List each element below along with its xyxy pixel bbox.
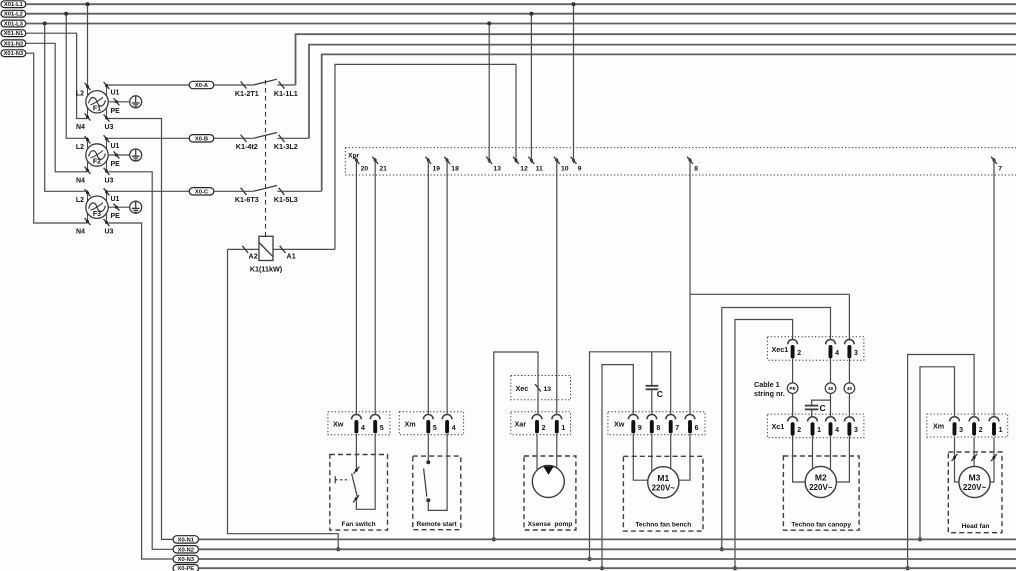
wire F U1 to X0-A [107, 84, 190, 86]
wire Xpr 18 to Xm 4 [446, 158, 448, 415]
wire bus L3 [26, 23, 1016, 25]
svg-text:A2: A2 [249, 252, 258, 261]
terminal label X0-N1 [173, 536, 198, 543]
svg-text:L2: L2 [76, 91, 84, 98]
capacitor C canopy [805, 406, 818, 410]
wire Xec1-2 down [792, 358, 794, 383]
svg-text:F2: F2 [93, 159, 101, 166]
svg-text:X0-B: X0-B [195, 136, 208, 142]
terminal slash F3 PE [114, 204, 120, 211]
contact blade K1-4t2/K1-3L2 [253, 133, 277, 139]
node junction bench-PE [600, 566, 604, 570]
terminal slash Xpr pin 7 [991, 157, 997, 164]
wire to Xc1-3 [848, 394, 850, 417]
svg-text:4: 4 [835, 427, 839, 434]
svg-text:220V~: 220V~ [963, 483, 987, 492]
svg-text:Head fan: Head fan [962, 523, 990, 530]
wire contact K1-5L3 out [277, 190, 321, 192]
filter F3 [86, 190, 108, 223]
terminal slash F1 L2 [85, 83, 91, 90]
connector Xw bench box [608, 412, 705, 435]
svg-text:K1-2T1: K1-2T1 [235, 89, 259, 98]
svg-text:F3: F3 [93, 211, 101, 218]
wire Xw6 to M1 [679, 434, 690, 480]
svg-text:A1: A1 [287, 252, 296, 261]
svg-text:U1: U1 [111, 143, 120, 150]
wire PE to Xm-head 2 [908, 355, 975, 569]
terminal Xec1 pin 2 [788, 340, 798, 345]
svg-text:M1: M1 [657, 473, 669, 483]
wire F1.U3 to X0-N1 [107, 119, 173, 540]
svg-text:2: 2 [542, 425, 546, 432]
terminal Xw pin 4 [352, 415, 362, 420]
terminal slash Xpr pin 21 [372, 157, 378, 164]
mechanical link K1 dashed [265, 80, 267, 236]
actuator bar fan switch [334, 476, 336, 483]
svg-text:13: 13 [544, 386, 552, 393]
terminal Xc1 pin 1 [808, 417, 818, 422]
contact bottom fan switch [353, 495, 359, 502]
svg-text:F1: F1 [93, 106, 101, 113]
wire Xar1 to pump [556, 434, 558, 468]
node L3 to Xpr 13 [487, 22, 491, 26]
wire bus N1 bottom [199, 538, 1016, 540]
svg-text:Techno fan canopy: Techno fan canopy [791, 522, 851, 529]
wire Xpr 20 to Xw 4 [355, 158, 357, 415]
connector Xc1 box [767, 414, 864, 438]
wire N3 to F3.N4 [26, 53, 88, 223]
wire N1 bus to Xec 13 to Xar 2 [494, 352, 538, 539]
svg-text:X0-A: X0-A [195, 83, 209, 89]
equipment box Fan switch [330, 455, 388, 531]
terminal Xw pin 8 [647, 415, 657, 420]
svg-text:11: 11 [536, 165, 543, 172]
terminal slash K1-4t2 [241, 135, 247, 142]
wire L3 to F3.L2 [45, 24, 88, 192]
terminal Xc1 pin 2 [788, 417, 798, 422]
svg-text:8: 8 [694, 165, 698, 172]
svg-text:U3: U3 [105, 177, 114, 184]
svg-text:5: 5 [433, 425, 437, 432]
svg-text:X01-L2: X01-L2 [4, 12, 23, 18]
wire F2.U3 to X0-N2 [107, 172, 173, 550]
terminal slash F1 U3 [104, 114, 110, 121]
terminal label X0-A [189, 81, 214, 88]
terminal label X01-N3 [1, 50, 26, 57]
terminal Xm pin 1 [989, 417, 999, 422]
contact blade K1-2T1/K1-1L1 [253, 79, 277, 85]
switch blade remote start [424, 469, 427, 497]
svg-text:Cable 1: Cable 1 [754, 380, 780, 389]
terminal Xm pin 3 [950, 417, 960, 422]
wire Xc1-2 to M2 [793, 435, 806, 482]
svg-text:Xec: Xec [516, 384, 529, 393]
svg-text:X0-N3: X0-N3 [178, 557, 195, 563]
svg-text:M3: M3 [969, 473, 981, 483]
terminal label X0-C [189, 188, 214, 195]
wire to M3 right [990, 460, 994, 482]
svg-text:X01-N1: X01-N1 [4, 31, 24, 37]
svg-text:C: C [820, 403, 826, 413]
actuator dashed fan switch [335, 479, 349, 481]
svg-text:19: 19 [433, 165, 441, 172]
svg-text:M2: M2 [815, 473, 827, 483]
svg-text:Techno fan bench: Techno fan bench [635, 522, 691, 529]
node L3 junction to F3 [43, 22, 47, 26]
filter F2 [86, 137, 108, 172]
terminal Xm pin 4 [442, 415, 452, 420]
svg-text:4: 4 [452, 425, 456, 432]
terminal slash Xpr pin 9 [571, 157, 577, 164]
terminal label X0-N2 [173, 546, 198, 553]
wire Xpr 21 to Xw 5 [374, 158, 376, 415]
wire capacitor to Xc1 1 [811, 410, 813, 417]
svg-text:C: C [657, 389, 663, 399]
terminal slash Xpr pin 10 [554, 157, 560, 164]
terminal slash A1 [280, 246, 286, 253]
node L1 junction to F1 [86, 2, 90, 6]
terminal slash Xpr pin 19 [425, 157, 431, 164]
svg-text:Remote start: Remote start [416, 521, 457, 528]
svg-text:10: 10 [561, 165, 569, 172]
motor M1 [648, 467, 679, 498]
svg-text:2: 2 [797, 427, 801, 434]
svg-text:Xm: Xm [405, 419, 416, 428]
wire N1 to F1.N4 [26, 33, 88, 118]
terminal slash F3 L2 [85, 189, 91, 196]
svg-text:N4: N4 [76, 177, 85, 184]
wire PE to Xw9 loop [602, 365, 633, 569]
ground symbol at F1 [130, 96, 142, 108]
wire phase A riser and bus [296, 34, 1016, 85]
terminal Xar pin 2 [532, 415, 542, 420]
svg-text:X01-N2: X01-N2 [4, 41, 24, 47]
wire Xw7 to M1 [670, 434, 672, 469]
wire pin8 tee to Xec1 3 [690, 293, 849, 295]
terminal Xw pin 6 [685, 415, 695, 420]
wire Xec1-4 down [830, 358, 832, 383]
svg-text:6: 6 [695, 425, 699, 432]
svg-text:U1: U1 [111, 196, 120, 203]
terminal Xw pin 9 [628, 415, 638, 420]
svg-text:3: 3 [854, 427, 858, 434]
terminal slash Xpr pin 8 [687, 157, 693, 164]
wire marker PE [787, 383, 798, 394]
terminal slash Xpr pin 11 [529, 157, 535, 164]
terminal slash Xec pin 13 [535, 384, 541, 391]
terminal Xc1 pin 3 [845, 417, 855, 422]
motor M3 [959, 466, 990, 497]
wire Xm3 into head fan [954, 437, 956, 460]
svg-text:1: 1 [817, 427, 821, 434]
terminal slash K1-3L2 [279, 135, 285, 142]
wire to M3 left [955, 460, 959, 482]
svg-text:1: 1 [561, 425, 565, 432]
terminal Xar pin 1 [552, 415, 562, 420]
node junction canopy-N2 [720, 547, 724, 551]
equipment box Techno fan canopy [783, 456, 859, 530]
wire N3 to Xw7 loop [590, 352, 671, 559]
wire bus N2 bottom [199, 548, 1016, 550]
svg-text:N4: N4 [76, 124, 85, 131]
wire X0-C to contact [214, 190, 253, 192]
terminal Xw pin 7 [666, 415, 676, 420]
contactor coil K1 [259, 236, 273, 260]
svg-text:4: 4 [835, 350, 839, 357]
wire N1 to Xm-head 3 [920, 367, 955, 540]
wire K1.A1 right [273, 248, 335, 250]
wire bus PE bottom [199, 567, 1016, 569]
wire Xc1-1 to M2 [812, 435, 814, 469]
wire L2 to F2.L2 [66, 14, 87, 139]
wire F3.U3 to X0-N3 [107, 223, 173, 559]
wire N2 to F2.N4 [26, 43, 88, 172]
svg-text:PE: PE [111, 108, 121, 115]
terminal label X01-N2 [1, 40, 26, 47]
equipment box Remote start [413, 456, 461, 530]
node L2 junction to F2 [64, 12, 68, 16]
wire phase B riser and bus [309, 45, 1016, 139]
wire K1.A2 return to N2 bus [228, 249, 339, 549]
svg-text:L2: L2 [76, 197, 84, 204]
terminal label X0-N3 [173, 555, 198, 562]
svg-text:Xsense pomp: Xsense pomp [528, 521, 573, 528]
terminal Xec1 pin 3 [845, 340, 855, 345]
wire Xm5 into remote start [427, 434, 429, 461]
svg-text:X0-C: X0-C [195, 189, 209, 195]
terminal slash F2 U1 [104, 135, 110, 142]
svg-text:Xw: Xw [614, 419, 625, 428]
terminal label X01-L3 [1, 20, 26, 27]
terminal slash K1-2T1 [241, 81, 247, 88]
svg-text:2: 2 [979, 427, 983, 434]
terminal slash F2 PE [114, 151, 120, 158]
equipment box Head fan [948, 452, 1002, 533]
terminal slash F1 U1 [104, 82, 110, 89]
wire Xm1 into head fan [993, 437, 995, 460]
wire Xc1-3 to M2 [836, 435, 849, 482]
svg-text:3: 3 [959, 427, 963, 434]
wire capacitor to Xw8 [651, 390, 653, 415]
svg-text:X0-N1: X0-N1 [178, 537, 195, 543]
svg-text:string nr.: string nr. [754, 389, 785, 398]
svg-text:Xar: Xar [515, 419, 527, 428]
wire contact K1-3L2 out [277, 137, 309, 139]
svg-text:9: 9 [638, 425, 642, 432]
svg-text:12: 12 [520, 165, 528, 172]
terminal Xm pin 2 [969, 417, 979, 422]
wire bus L2 [26, 13, 1016, 15]
svg-text:K1-3L2: K1-3L2 [274, 142, 298, 151]
terminal label X0-PE [173, 565, 198, 571]
terminal Xec1 pin 4 [826, 340, 836, 345]
svg-text:X0-PE: X0-PE [177, 566, 194, 571]
wire contact K1-1L1 out [277, 84, 295, 86]
wire Xc1-4 to M2 [830, 435, 832, 470]
terminal label X01-N1 [1, 30, 26, 37]
terminal slash K1-1L1 [279, 81, 285, 88]
terminal slash F2 N4 [85, 167, 91, 174]
wire F1 PE to ground [108, 101, 130, 103]
wire down to Xec1 3 [848, 294, 850, 339]
equipment box Techno fan bench [623, 456, 703, 531]
svg-text:Xw: Xw [333, 419, 344, 428]
svg-text:PE: PE [790, 386, 796, 391]
svg-text:7: 7 [998, 165, 1002, 172]
connector Xar box [511, 412, 571, 435]
wire PE to Xec1 2 [735, 320, 793, 569]
wire bus L1 [26, 3, 1016, 5]
wire Xm2 to M3 [973, 437, 975, 466]
connector Xm head box [927, 414, 1008, 437]
svg-text:48: 48 [828, 386, 834, 391]
svg-text:K1-4t2: K1-4t2 [236, 142, 258, 151]
svg-text:X01-N3: X01-N3 [4, 51, 24, 57]
wire L2 to Xpr pin 11 [530, 14, 532, 163]
wire phase C riser and bus [322, 54, 1016, 191]
capacitor C bench [646, 386, 659, 390]
terminal Xc1 pin 4 [826, 417, 836, 422]
wire L3 to Xpr pin 13 [488, 24, 490, 164]
svg-text:Xc1: Xc1 [772, 422, 785, 431]
wire marker 49 [844, 383, 855, 394]
filter F1 [86, 84, 108, 119]
terminal slash F1 PE [114, 98, 120, 105]
wire fan switch return to Xw5 [356, 434, 375, 509]
wire X0-B to contact [214, 137, 253, 139]
svg-text:21: 21 [379, 165, 387, 172]
wire to Xc1-4 [830, 394, 832, 417]
svg-text:X01-L3: X01-L3 [4, 22, 24, 28]
node L2 to Xpr 11 [529, 12, 533, 16]
terminal slash M3 wire b [971, 454, 977, 461]
terminal slash Xpr pin 20 [354, 157, 360, 164]
terminal slash K1-5L3 [279, 188, 285, 195]
contact top fan switch [354, 467, 360, 474]
wire marker 48 [825, 383, 836, 394]
svg-text:4: 4 [361, 425, 365, 432]
svg-text:13: 13 [493, 165, 501, 172]
node junction canopy-PE [733, 566, 737, 570]
wire F2 PE to ground [108, 154, 130, 156]
wire Xar2 to pump [536, 434, 538, 471]
svg-text:Xm: Xm [933, 422, 944, 431]
svg-text:PE: PE [111, 161, 121, 168]
terminal slash M3 wire a [952, 454, 958, 461]
svg-text:X0-N2: X0-N2 [178, 547, 194, 553]
terminal slash Xpr pin 12 [513, 157, 519, 164]
terminal slash K1-6T3 [241, 188, 247, 195]
svg-text:U3: U3 [105, 229, 114, 236]
terminal label X01-L1 [1, 1, 26, 8]
terminal slash Xpr pin 18 [444, 157, 450, 164]
equipment box Xsense pomp [524, 456, 576, 530]
wire Xpr 19 to Xm 5 [427, 158, 429, 415]
svg-text:20: 20 [361, 165, 369, 172]
svg-text:7: 7 [675, 425, 679, 432]
connector Xec1 box [767, 337, 864, 360]
svg-text:N4: N4 [76, 229, 85, 236]
svg-text:18: 18 [451, 165, 459, 172]
terminal slash F2 U3 [104, 168, 110, 175]
wire remote start return to Xm4 [428, 434, 447, 511]
wire Xpr 7 to Xm-head 1 [993, 158, 995, 417]
motor M2 [805, 466, 836, 497]
wire X0-A to contact [214, 84, 253, 86]
pump P1 Xsense [532, 466, 564, 498]
wire tee to capacitor canopy [812, 400, 831, 405]
connector strip Xpr box [345, 148, 1016, 175]
svg-text:220V~: 220V~ [652, 483, 676, 492]
terminal label X0-B [189, 135, 214, 142]
wire Xpr 8 down to Xw 6 [689, 158, 691, 415]
node junction xsense-N1 [492, 537, 496, 541]
wire to Xc1-2 [792, 394, 794, 417]
svg-text:3: 3 [854, 350, 858, 357]
terminal slash F3 U3 [104, 219, 110, 226]
terminal slash F3 N4 [85, 218, 91, 225]
terminal label X01-L2 [1, 10, 26, 17]
wire N2 to Xec1 4 [722, 308, 831, 550]
terminal slash F2 L2 [85, 136, 91, 143]
contact blade K1-6T3/K1-5L3 [253, 186, 277, 192]
svg-text:K1(11kW): K1(11kW) [250, 265, 283, 274]
svg-text:49: 49 [847, 386, 853, 391]
connector Xec box [511, 376, 571, 400]
terminal Xm pin 5 [423, 415, 433, 420]
wire F U1 to X0-C [107, 190, 190, 192]
connector Xw fan-switch box [328, 412, 390, 435]
node junction head-N1 [918, 537, 922, 541]
terminal slash F3 U1 [104, 188, 110, 195]
terminal Xw pin 5 [370, 415, 380, 420]
wire bus N3 bottom [199, 558, 1016, 560]
svg-text:X01-L1: X01-L1 [4, 2, 24, 8]
wire Xw9 to M1 [633, 434, 647, 480]
terminal slash M3 wire c [991, 454, 997, 461]
svg-text:9: 9 [578, 165, 582, 172]
contact bottom remote start [426, 498, 430, 502]
wire to capacitor bench [651, 352, 653, 385]
svg-text:Fan switch: Fan switch [342, 521, 376, 528]
wire F3 PE to ground [108, 206, 130, 208]
svg-text:Xec1: Xec1 [772, 345, 789, 354]
wire Xw4 into fan switch [355, 434, 357, 469]
svg-text:1: 1 [999, 427, 1003, 434]
node L1 to Xpr 9 [572, 2, 576, 6]
svg-text:2: 2 [797, 350, 801, 357]
wire L1 to Xpr pin 9 [573, 4, 575, 163]
svg-text:8: 8 [656, 425, 660, 432]
wire F U1 to X0-B [107, 137, 190, 139]
terminal slash Xpr pin 13 [486, 157, 492, 164]
ground symbol at F3 [130, 201, 142, 213]
svg-text:L2: L2 [76, 144, 84, 151]
node junction A2-N2 [336, 547, 340, 551]
wire K1.A2 left [228, 248, 260, 250]
wire L1 to F1.L2 [87, 4, 89, 84]
wire Xpr 10 to Xar 1 [556, 158, 558, 415]
svg-text:220V~: 220V~ [809, 483, 833, 492]
terminal slash F1 N4 [85, 113, 91, 120]
wire K1.A1 to Xpr pin 12 [335, 64, 516, 249]
svg-text:PE: PE [111, 213, 121, 220]
wire Xw8 to M1 [651, 434, 653, 472]
terminal slash A2 [242, 246, 248, 253]
contact top remote start [426, 460, 430, 464]
switch blade fan switch [352, 474, 358, 499]
svg-text:5: 5 [380, 425, 384, 432]
